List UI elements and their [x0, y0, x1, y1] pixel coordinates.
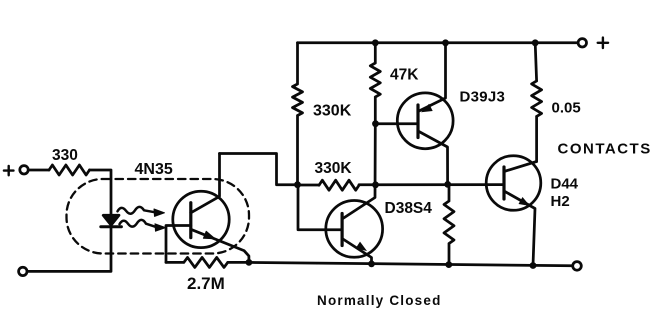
svg-text:D39J3: D39J3 [460, 88, 506, 105]
svg-text:CONTACTS: CONTACTS [558, 141, 652, 158]
wire bottom-left return [27, 227, 111, 272]
resistor 330K first (vertical) [293, 43, 303, 185]
svg-text:330K: 330K [313, 103, 352, 120]
svg-text:330: 330 [52, 147, 78, 164]
node + terminal right top [578, 39, 586, 47]
light arrow upper [118, 207, 165, 216]
wire node A down to Q2 base [298, 185, 342, 230]
svg-text:H2: H2 [551, 193, 570, 210]
bottom rail [249, 262, 573, 265]
junction top rail / 47K [372, 39, 379, 46]
wire resistor 330 to LED anode corner [90, 170, 112, 215]
junction Q3 collector / mid rail [444, 181, 451, 188]
resistor 2.7M [166, 257, 249, 267]
svg-text:2.7M: 2.7M [187, 274, 225, 293]
junction top rail / Q3 emitter [442, 39, 449, 46]
resistor base pulldown (unlabeled) [444, 184, 454, 264]
LED of optocoupler U1 (4N35) [101, 215, 122, 227]
node input terminal left bottom [19, 267, 27, 275]
wire mid rail to D44 base [359, 183, 504, 186]
junction Q4 emitter / bottom rail [530, 262, 537, 269]
resistor 47K [370, 43, 380, 124]
top supply rail [298, 41, 579, 44]
node output terminal right bottom [573, 262, 582, 271]
mid rail node A to resistor 330K second [298, 184, 320, 187]
svg-text:4N35: 4N35 [135, 161, 173, 178]
junction 47K / Q2 collector node [372, 181, 379, 188]
junction Q2 emitter on bottom rail [368, 261, 375, 268]
svg-text:Normally Closed: Normally Closed [317, 293, 442, 308]
plus label left input [4, 166, 14, 175]
svg-text:330K: 330K [315, 160, 353, 177]
optocoupler package dashed outline 4N35 [67, 179, 250, 254]
wire phototransistor collector to node A [220, 154, 298, 185]
node + input terminal left top [20, 166, 28, 174]
junction top rail / 0.05 [532, 39, 539, 46]
wire phototransistor base lead [166, 226, 191, 263]
junction node A [294, 181, 301, 188]
svg-text:D44: D44 [551, 175, 579, 192]
resistor 330 [49, 165, 90, 175]
transistor Q3 D39J3 (PNP) [397, 43, 453, 184]
resistor 0.05 [532, 43, 542, 162]
svg-text:47K: 47K [390, 67, 419, 84]
wire Q3 base [376, 122, 418, 125]
transistor Q2 D38S4 [326, 124, 383, 264]
phototransistor Q1 of 4N35 [173, 154, 249, 263]
transistor Q4 D44H2 [486, 156, 541, 266]
light arrow lower [120, 220, 166, 231]
junction phototransistor emitter / 2.7M [246, 259, 253, 266]
svg-text:D38S4: D38S4 [385, 200, 433, 217]
resistor 330K second (horizontal) [319, 180, 359, 190]
junction 47K / Q3 base [372, 120, 379, 127]
junction pulldown resistor / bottom rail [445, 261, 452, 268]
plus label right supply [598, 38, 608, 48]
wire from left terminal to resistor 330 [28, 169, 49, 172]
svg-text:0.05: 0.05 [552, 99, 581, 116]
